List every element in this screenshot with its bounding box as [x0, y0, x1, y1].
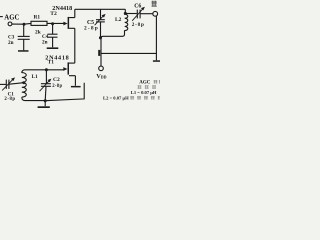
- svg-text:T2: T2: [50, 11, 57, 17]
- svg-text:L1 = 0.07 μH: L1 = 0.07 μH: [131, 90, 157, 95]
- svg-text:2-8p: 2-8p: [132, 22, 145, 28]
- svg-text:2k: 2k: [35, 29, 41, 35]
- svg-text:C6: C6: [134, 3, 141, 9]
- svg-text:AGC: AGC: [4, 15, 19, 22]
- svg-text:L2: L2: [115, 17, 122, 23]
- svg-text:2-8p: 2-8p: [84, 26, 99, 32]
- svg-text:L1: L1: [32, 74, 38, 80]
- svg-text:L2 = 0.07 μH: L2 = 0.07 μH: [103, 96, 129, 101]
- svg-text:AGC: AGC: [139, 80, 151, 85]
- svg-text:DD: DD: [101, 75, 107, 80]
- svg-text:2n: 2n: [42, 39, 48, 45]
- svg-text:T1: T1: [48, 60, 55, 66]
- svg-text:2-8p: 2-8p: [52, 84, 62, 89]
- svg-text:2n: 2n: [8, 40, 14, 46]
- svg-text:C2: C2: [53, 77, 60, 83]
- svg-text:2-8p: 2-8p: [4, 97, 15, 102]
- svg-text:R1: R1: [34, 15, 41, 21]
